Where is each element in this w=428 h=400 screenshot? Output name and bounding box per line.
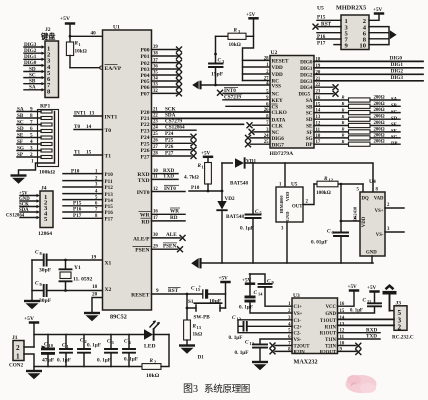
- svg-text:X1: X1: [105, 261, 112, 267]
- svg-text:Y1: Y1: [74, 265, 81, 271]
- svg-text:DP: DP: [391, 142, 397, 147]
- U3 right labels: [320, 305, 337, 355]
- svg-text:C: C: [191, 286, 195, 292]
- svg-text:30: 30: [153, 233, 158, 238]
- svg-text:35: 35: [153, 71, 158, 76]
- svg-text:15: 15: [86, 149, 92, 155]
- svg-text:R: R: [342, 120, 345, 125]
- diode VD2 BAT548 vertical: [217, 163, 244, 263]
- svg-text:C: C: [124, 339, 128, 345]
- svg-text:40: 40: [91, 31, 97, 37]
- svg-text:DIG2: DIG2: [391, 69, 404, 75]
- svg-text:DIG3: DIG3: [24, 42, 37, 48]
- svg-text:P17: P17: [317, 40, 326, 46]
- svg-text:0. 1μF: 0. 1μF: [97, 358, 111, 364]
- voltage regulator U5b HIM4000: [276, 163, 314, 263]
- connector J4 12864 LCD: [38, 186, 53, 238]
- U1 RXD TXD INT0 stubs: [152, 168, 186, 192]
- U2 power pin wires RESET VDD VDD RC: [243, 60, 271, 80]
- svg-text:30pF: 30pF: [39, 268, 52, 274]
- wire EA pin with bubble: [70, 66, 103, 69]
- svg-text:34: 34: [153, 77, 158, 82]
- svg-text:VS+: VS+: [294, 312, 303, 317]
- U2 DIG6 DIG7 X stubs: [245, 135, 270, 147]
- svg-text:RST: RST: [321, 21, 332, 27]
- display driver U2 HD7279A: [270, 50, 315, 157]
- svg-text:47μF: 47μF: [42, 358, 55, 364]
- svg-text:0. 1μF: 0. 1μF: [350, 309, 363, 314]
- svg-text:23: 23: [153, 120, 158, 125]
- U1 right in-chip labels: [131, 48, 150, 299]
- svg-text:GND: GND: [19, 197, 30, 202]
- R1IN to J3 pin2: [338, 324, 395, 326]
- svg-text:P01: P01: [140, 54, 149, 60]
- svg-text:SB: SB: [391, 104, 398, 109]
- watermark blob: [346, 375, 377, 393]
- svg-text:26: 26: [153, 139, 158, 144]
- crystal Y1 11.0592: [60, 259, 93, 292]
- ground crystal: [24, 260, 40, 309]
- svg-text:+5V: +5V: [373, 7, 383, 13]
- svg-text:24: 24: [264, 134, 269, 139]
- svg-text:HIM4000: HIM4000: [279, 195, 284, 214]
- svg-text:RXD: RXD: [366, 327, 377, 333]
- svg-text:DIG2: DIG2: [24, 48, 37, 54]
- svg-text:T0: T0: [105, 128, 112, 134]
- svg-text:INT1: INT1: [105, 114, 118, 120]
- U3 left labels: [294, 305, 311, 355]
- svg-text:200Ω: 200Ω: [374, 127, 385, 132]
- svg-text:DIG7: DIG7: [272, 142, 285, 148]
- svg-text:VDD: VDD: [362, 216, 367, 227]
- svg-text:SD: SD: [306, 117, 313, 123]
- svg-text:U4: U4: [369, 179, 376, 185]
- connector J2 keyboard: [40, 27, 59, 98]
- svg-text:11. 0592: 11. 0592: [73, 277, 92, 283]
- svg-text:2: 2: [30, 152, 33, 158]
- svg-text:28: 28: [264, 56, 269, 61]
- svg-text:DIG0: DIG0: [390, 56, 403, 62]
- svg-text:+5V: +5V: [19, 191, 28, 196]
- U1 P24-P27 stubs with X: [152, 131, 197, 159]
- wire +5V node to pin40: [69, 31, 103, 38]
- svg-text:2: 2: [398, 324, 402, 332]
- svg-text:键盘: 键盘: [40, 32, 56, 41]
- svg-text:P15: P15: [105, 204, 114, 210]
- svg-text:VD2: VD2: [225, 196, 235, 202]
- svg-text:10: 10: [153, 169, 158, 174]
- svg-text:SD: SD: [17, 126, 24, 132]
- svg-text:R: R: [150, 358, 154, 364]
- capacitor C5 0.1uF: [240, 163, 263, 263]
- svg-text:DIG3: DIG3: [300, 79, 313, 85]
- svg-text:7: 7: [30, 119, 33, 125]
- U1 P10-P17 wires: [63, 174, 103, 219]
- svg-text:25: 25: [153, 132, 158, 137]
- svg-text:SC: SC: [391, 110, 398, 115]
- svg-text:INT0: INT0: [137, 190, 150, 196]
- svg-text:C: C: [35, 250, 39, 256]
- svg-text:CS12864: CS12864: [165, 125, 185, 131]
- svg-text:11: 11: [202, 165, 206, 170]
- svg-text:200Ω: 200Ω: [374, 102, 385, 107]
- U5 left wires P15 RST P16 P17: [313, 15, 342, 47]
- DIG4 DIG5 X stubs: [314, 84, 339, 97]
- svg-text:T2OUT: T2OUT: [294, 345, 311, 350]
- svg-text:R: R: [342, 107, 345, 112]
- svg-text:36: 36: [153, 65, 158, 70]
- capacitor C12 on VS- to ground: [235, 339, 293, 370]
- svg-text:0. 1μF: 0. 1μF: [239, 305, 253, 311]
- svg-text:SG: SG: [17, 145, 24, 151]
- resistor R2 10k: [142, 335, 169, 380]
- svg-text:R: R: [342, 101, 345, 106]
- U5 right +5V and ground: [369, 7, 384, 20]
- push button S1 SW-PB: [186, 294, 226, 320]
- svg-text:CS12864: CS12864: [6, 213, 25, 218]
- svg-text:CON2: CON2: [9, 363, 24, 369]
- connector J3 RS232: [392, 301, 414, 341]
- svg-text:27: 27: [153, 145, 158, 150]
- U3 T2OUT R2IN X stubs: [270, 343, 293, 355]
- RP1 pin wires: [17, 112, 41, 158]
- U1 ALE PSEN stubs with X: [152, 232, 186, 252]
- T1IN TXD stub: [338, 334, 381, 340]
- svg-text:SA: SA: [29, 85, 36, 91]
- svg-text:P10: P10: [105, 172, 114, 178]
- +5V and capacitor C14 on VS+: [239, 274, 292, 313]
- svg-text:13: 13: [89, 110, 95, 116]
- bottom ground rail: [34, 366, 142, 368]
- svg-text:SA: SA: [17, 106, 24, 112]
- svg-text:13: 13: [197, 325, 202, 330]
- svg-text:16: 16: [153, 210, 158, 215]
- svg-text:1kΩ: 1kΩ: [193, 332, 203, 338]
- svg-text:3: 3: [30, 145, 33, 151]
- ground J1: [26, 371, 42, 379]
- svg-text:PSEN: PSEN: [135, 248, 149, 254]
- svg-text:VS+: VS+: [375, 209, 384, 214]
- svg-text:P23: P23: [140, 129, 149, 135]
- svg-text:P07: P07: [140, 92, 149, 98]
- svg-text:VSS: VSS: [272, 83, 282, 89]
- U2 left in-chip labels: [272, 59, 290, 149]
- svg-text:DIG4: DIG4: [300, 85, 313, 91]
- svg-text:12: 12: [153, 187, 158, 192]
- U3 VCC to +5V: [338, 284, 360, 306]
- P10 net wire: [189, 185, 223, 192]
- svg-text:P20: P20: [140, 110, 149, 116]
- svg-text:SP: SP: [17, 152, 24, 158]
- svg-text:0. 1μF: 0. 1μF: [57, 358, 71, 364]
- svg-text:T1IN: T1IN: [325, 338, 336, 343]
- svg-text:9: 9: [40, 282, 43, 287]
- J2 net labels DIG3..SA: [24, 42, 37, 91]
- svg-text:C: C: [218, 58, 222, 64]
- svg-text:P22: P22: [140, 122, 149, 128]
- svg-text:0. 1μF: 0. 1μF: [87, 343, 101, 349]
- svg-text:P12: P12: [105, 185, 114, 191]
- svg-text:2: 2: [16, 344, 20, 352]
- DIG0-DIG3 long wires: [314, 61, 423, 80]
- svg-text:RESET: RESET: [131, 292, 150, 298]
- svg-text:200Ω: 200Ω: [374, 115, 385, 120]
- svg-text:C: C: [107, 339, 111, 345]
- svg-text:P24: P24: [165, 131, 174, 137]
- svg-text:VCC: VCC: [326, 305, 337, 310]
- svg-text:P25: P25: [165, 138, 174, 144]
- svg-text:4: 4: [129, 340, 132, 345]
- svg-text:DIG1: DIG1: [300, 66, 313, 72]
- J2 pin wires with arrows: [24, 47, 42, 90]
- svg-text:P27: P27: [140, 154, 149, 160]
- svg-text:5: 5: [357, 188, 360, 193]
- svg-text:C1+: C1+: [294, 305, 303, 310]
- svg-text:11: 11: [153, 175, 158, 180]
- svg-text:DQ: DQ: [362, 197, 369, 202]
- svg-text:INT0: INT0: [164, 186, 176, 192]
- U1 P00-P07 wires with X: [152, 50, 178, 94]
- svg-text:SE: SE: [306, 124, 313, 130]
- svg-text:VS-: VS-: [376, 233, 384, 238]
- svg-text:C2+: C2+: [294, 325, 303, 330]
- svg-text:P16: P16: [73, 207, 82, 213]
- U2 NC pin X stub: [249, 129, 271, 135]
- svg-text:VDD: VDD: [272, 72, 283, 78]
- svg-text:SW-PB: SW-PB: [194, 314, 211, 320]
- svg-text:R: R: [234, 28, 238, 34]
- svg-text:P02: P02: [140, 61, 149, 67]
- U2 CS stub: [226, 105, 270, 107]
- capacitor C9 on C1+: [250, 274, 293, 306]
- svg-text:26: 26: [264, 108, 269, 113]
- svg-text:TXD: TXD: [366, 334, 377, 340]
- svg-text:WR: WR: [140, 213, 151, 219]
- X1 X2 pin numbers: [91, 255, 98, 291]
- svg-text:100kΩ: 100kΩ: [316, 190, 331, 196]
- LED D1: [144, 320, 169, 349]
- capacitor C3 15pF: [209, 36, 225, 85]
- svg-text:9: 9: [272, 280, 275, 285]
- svg-text:T1OUT: T1OUT: [320, 319, 337, 324]
- svg-text:TXD: TXD: [138, 178, 150, 184]
- svg-text:14: 14: [86, 124, 92, 130]
- svg-text:2: 2: [306, 200, 309, 205]
- svg-text:SCK: SCK: [165, 106, 176, 112]
- svg-text:C: C: [245, 340, 249, 346]
- U1 P21 SDA long wire to U2 DATA: [152, 113, 271, 119]
- svg-text:DIG1: DIG1: [391, 62, 404, 68]
- svg-text:DIG5: DIG5: [299, 92, 311, 97]
- svg-text:OUT: OUT: [292, 205, 303, 210]
- svg-text:C: C: [363, 298, 367, 304]
- svg-text:18: 18: [92, 284, 98, 290]
- RP1 pin labels SA9..SP2: [17, 106, 56, 175]
- resistor R13 1k: [184, 308, 203, 346]
- svg-text:20: 20: [92, 292, 98, 298]
- connector J1 CON2: [9, 335, 34, 371]
- svg-text:32: 32: [153, 89, 158, 94]
- svg-text:DIG0: DIG0: [24, 60, 37, 66]
- T1OUT to J3 pin3: [338, 318, 395, 320]
- svg-text:SC: SC: [29, 72, 36, 78]
- +5V for U2: [243, 12, 259, 81]
- svg-text:HD7279A: HD7279A: [270, 151, 294, 157]
- svg-text:LED: LED: [144, 344, 156, 350]
- svg-text:10kΩ: 10kΩ: [75, 49, 87, 55]
- driver U3 MAX232: [292, 293, 338, 366]
- svg-text:89C52: 89C52: [110, 314, 127, 321]
- svg-text:R2OUT: R2OUT: [320, 351, 337, 356]
- svg-text:GND: GND: [366, 251, 377, 256]
- svg-text:3: 3: [112, 340, 115, 345]
- ground under R13: [179, 346, 204, 361]
- svg-text:SB: SB: [306, 104, 313, 110]
- svg-text:R2IN: R2IN: [294, 351, 306, 356]
- svg-text:GND: GND: [325, 312, 336, 317]
- svg-text:39: 39: [153, 45, 158, 50]
- svg-text:+5V: +5V: [367, 285, 377, 291]
- svg-text:D1: D1: [198, 355, 205, 361]
- svg-text:ALE/P: ALE/P: [133, 236, 150, 242]
- svg-text:22: 22: [153, 114, 158, 119]
- J4 net labels: [6, 191, 30, 218]
- svg-text:VD1: VD1: [246, 159, 256, 165]
- svg-text:0. 01μF: 0. 01μF: [311, 240, 328, 246]
- U1 P20 SCK long wire to U2 CLKO: [152, 106, 271, 112]
- INT0 net to U2 KEY with X: [217, 88, 270, 96]
- capacitor C4b 0.1uF: [123, 335, 138, 367]
- svg-text:1: 1: [67, 344, 69, 349]
- svg-text:13: 13: [237, 317, 242, 322]
- svg-text:10kΩ: 10kΩ: [229, 42, 241, 48]
- U1 left in-chip labels: [105, 66, 122, 293]
- J4 pin wires with arrows: [20, 196, 37, 218]
- resistor network RP1 100k: [19, 104, 59, 176]
- svg-text:C1-: C1-: [294, 319, 302, 324]
- header connector U5 MHDR2X5: [317, 5, 369, 50]
- svg-text:3: 3: [387, 227, 390, 232]
- resistor R12 100k: [314, 176, 363, 196]
- svg-text:C: C: [80, 338, 84, 344]
- svg-text:SG: SG: [391, 136, 398, 141]
- svg-text:25: 25: [264, 140, 269, 145]
- svg-text:C: C: [35, 281, 39, 287]
- svg-text:T0: T0: [74, 124, 80, 130]
- +5V for reset: [219, 276, 231, 309]
- svg-text:SA: SA: [306, 98, 313, 104]
- svg-text:P15: P15: [317, 15, 326, 21]
- svg-text:SF: SF: [17, 139, 23, 145]
- svg-text:U5: U5: [317, 6, 324, 12]
- svg-text:12864: 12864: [38, 231, 52, 237]
- svg-text:R: R: [342, 139, 345, 144]
- svg-text:29: 29: [153, 245, 158, 250]
- svg-text:+5V: +5V: [60, 16, 70, 22]
- resistor R3 10k: [216, 28, 254, 49]
- svg-text:37: 37: [153, 58, 158, 63]
- svg-text:4. 7kΩ: 4. 7kΩ: [184, 175, 199, 181]
- svg-text:RST: RST: [168, 288, 179, 294]
- svg-text:VS-: VS-: [294, 338, 302, 343]
- svg-text:P26: P26: [165, 144, 174, 150]
- svg-text:RP1: RP1: [40, 104, 50, 110]
- capacitor C10 47uF: [41, 335, 55, 367]
- svg-text:3: 3: [222, 59, 225, 64]
- svg-text:R1IN: R1IN: [325, 325, 337, 330]
- svg-text:15pF: 15pF: [211, 72, 224, 78]
- svg-text:SC: SC: [17, 119, 24, 125]
- svg-text:R: R: [342, 127, 345, 132]
- svg-text:DIG1: DIG1: [24, 54, 37, 60]
- svg-text:0. 1μF: 0. 1μF: [240, 226, 254, 232]
- svg-text:MHDR2X5: MHDR2X5: [336, 5, 366, 12]
- svg-text:10kΩ: 10kΩ: [146, 373, 160, 379]
- svg-text:RC.232.C: RC.232.C: [392, 335, 414, 341]
- svg-text:P26: P26: [140, 148, 149, 154]
- svg-text:P17: P17: [105, 217, 114, 223]
- svg-text:MAX232: MAX232: [294, 359, 318, 366]
- resistor R11 4.7k: [184, 163, 211, 192]
- svg-text:24: 24: [153, 126, 158, 131]
- svg-text:4: 4: [266, 82, 269, 87]
- svg-text:C: C: [62, 343, 66, 349]
- crystal oscillator C8 C9 Y1: [32, 250, 103, 274]
- svg-text:33: 33: [153, 83, 158, 88]
- capacitor C6 0.01uF on VDD pin4: [311, 183, 360, 263]
- analog ground rail: [191, 258, 373, 268]
- svg-text:21: 21: [153, 107, 158, 112]
- svg-text:C: C: [327, 229, 331, 235]
- svg-text:KEY: KEY: [272, 98, 283, 104]
- segment resistors R3..R10 200ohm: [314, 95, 400, 147]
- U2 right pin numbers: [316, 57, 321, 145]
- svg-text:200Ω: 200Ω: [374, 133, 385, 138]
- svg-text:1: 1: [16, 353, 20, 361]
- svg-text:RD: RD: [170, 215, 178, 221]
- ground arrow VSS line: [192, 81, 270, 90]
- svg-text:系统原理图: 系统原理图: [204, 383, 250, 395]
- U1 pin20 ground: [84, 292, 103, 322]
- svg-text:6: 6: [30, 126, 33, 132]
- ground for RP1: [11, 176, 27, 184]
- svg-text:T1: T1: [74, 149, 80, 155]
- svg-text:SDA: SDA: [19, 208, 29, 213]
- svg-text:P10: P10: [71, 168, 80, 174]
- diode VD1 BAT548: [230, 158, 256, 186]
- svg-text:T1: T1: [105, 153, 112, 159]
- U1 WR RD stubs: [152, 209, 186, 222]
- svg-text:BAT548: BAT548: [226, 214, 244, 220]
- U1 RESET wire: [152, 288, 188, 294]
- svg-text:12: 12: [329, 178, 333, 183]
- svg-text:DIG3: DIG3: [391, 75, 404, 81]
- svg-text:C: C: [267, 279, 271, 285]
- svg-text:ALE: ALE: [166, 232, 177, 238]
- +5V top rail: [34, 334, 144, 336]
- svg-text:SG: SG: [306, 136, 313, 142]
- svg-text:SB: SB: [17, 113, 24, 119]
- thick ground bar at J3: [383, 286, 397, 311]
- svg-text:EA/VP: EA/VP: [105, 66, 122, 72]
- svg-text:P00: P00: [140, 48, 149, 54]
- svg-text:VDD: VDD: [272, 65, 283, 71]
- svg-text:GND: GND: [285, 212, 290, 222]
- svg-text:VAD: VAD: [374, 197, 384, 202]
- svg-text:SC: SC: [306, 111, 313, 117]
- svg-text:DIG0: DIG0: [300, 59, 313, 65]
- svg-text:P10: P10: [191, 185, 200, 191]
